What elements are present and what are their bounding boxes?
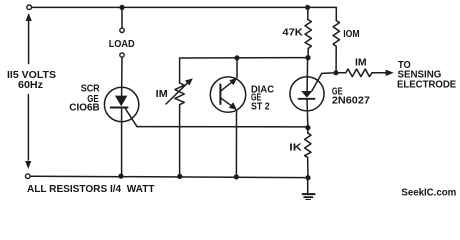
node junction LOAD tap on top rail: [119, 5, 124, 10]
source arrow up (115V lead): [26, 13, 32, 64]
diac ST2 base bar: [219, 85, 221, 105]
wire LOAD upper lead: [121, 7, 123, 28]
svg-text:LOAD: LOAD: [109, 39, 135, 50]
wire SCR gate to 1K top junction: [137, 126, 308, 128]
potentiometer R 1M body: [175, 83, 184, 105]
thyristor SCR cathode bar: [111, 107, 128, 109]
wire interbase rail (pot top to 47K bottom): [180, 58, 308, 83]
svg-text:CIO6B: CIO6B: [69, 103, 99, 114]
svg-text:IM: IM: [156, 89, 168, 100]
node AC terminal bottom (open circle): [26, 174, 31, 179]
thyristor SCR anode triangle: [115, 96, 127, 107]
wire DIAC bottom lead to bottom rail: [235, 110, 237, 177]
wire PUT cathode to 1K junction: [306, 99, 309, 128]
svg-text:SeekIC.com: SeekIC.com: [401, 187, 456, 199]
wire DIAC top lead: [236, 58, 238, 78]
wire LOAD to SCR anode: [121, 57, 123, 96]
ground bar 1: [303, 193, 315, 195]
svg-text:SCR: SCR: [81, 83, 101, 94]
wire SCR cathode to bottom rail: [121, 108, 123, 176]
resistor R 1M output (horizontal): [336, 69, 387, 77]
svg-text:IOM: IOM: [343, 29, 359, 40]
thyristor SCR C106B circle: [104, 87, 138, 121]
output arrow to sensing electrode: [386, 70, 394, 76]
wire SCR gate diagonal: [125, 108, 137, 127]
resistor R 1K: [305, 128, 311, 178]
resistor R 10M: [333, 21, 339, 73]
ground stem: [307, 178, 309, 194]
node LOAD terminal upper (open circle): [120, 28, 124, 32]
svg-text:ALL RESISTORS I/4 WATT: ALL RESISTORS I/4 WATT: [27, 184, 155, 195]
wire pot bottom to bottom rail: [179, 105, 181, 177]
transistor PUT 2N6027 circle: [290, 77, 324, 111]
ground bar 3: [306, 199, 310, 201]
svg-text:ELECTRODE: ELECTRODE: [397, 79, 457, 90]
wire top rail: [32, 7, 337, 20]
potentiometer arrow: [166, 78, 193, 104]
wire 115V lower lead: [27, 95, 29, 161]
svg-text:2N6027: 2N6027: [332, 96, 370, 107]
node junction 47K top on top rail: [305, 5, 310, 10]
node junction DIAC on bottom rail: [234, 174, 239, 179]
diac ST2 lower diagonal with arrow: [221, 98, 237, 110]
wire bottom rail: [30, 176, 308, 177]
svg-text:IM: IM: [355, 58, 367, 69]
node junction 10M bottom / PUT gate / 1M: [334, 70, 339, 75]
svg-text:47K: 47K: [282, 27, 303, 38]
svg-text:IK: IK: [289, 143, 302, 154]
transistor PUT anode triangle: [301, 91, 312, 98]
resistor R 47K: [305, 7, 311, 56]
wire PUT gate: [312, 73, 336, 91]
node LOAD terminal lower (open circle): [120, 53, 124, 57]
node junction 1K bottom / ground on bottom rail: [305, 175, 310, 180]
node junction DIAC top on interbase rail: [234, 55, 239, 60]
node AC terminal top (open circle): [27, 5, 32, 10]
ground bar 2: [304, 196, 312, 198]
node junction 47K bottom / PUT anode: [305, 55, 310, 60]
svg-text:60Hz: 60Hz: [18, 80, 43, 91]
node junction PUT cathode / SCR gate / 1K top: [305, 125, 310, 130]
node junction pot on bottom rail: [177, 174, 182, 179]
node junction SCR cathode on bottom rail: [118, 174, 123, 179]
wire PUT anode lead: [306, 58, 309, 92]
source arrow down (115V lead): [25, 161, 31, 169]
diac ST2 circle: [210, 77, 245, 112]
diac ST2 upper diagonal with arrow: [221, 78, 237, 91]
svg-text:ST 2: ST 2: [251, 102, 270, 113]
transistor PUT cathode bar: [299, 98, 315, 100]
